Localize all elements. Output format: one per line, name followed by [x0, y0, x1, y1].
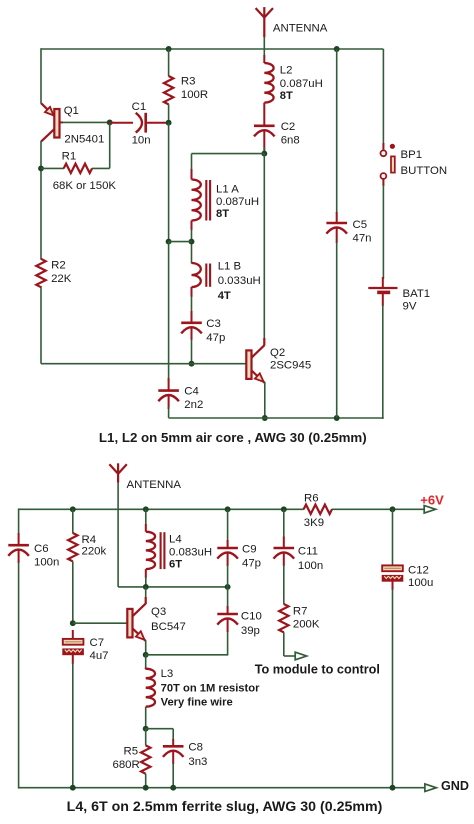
svg-text:3K9: 3K9 — [304, 517, 324, 529]
wire — [41, 363, 247, 365]
svg-text:2N5401: 2N5401 — [64, 134, 104, 146]
wire — [40, 141, 42, 260]
svg-text:6T: 6T — [169, 558, 182, 570]
svg-text:100n: 100n — [34, 556, 59, 568]
capacitor C10 — [217, 587, 238, 632]
transistor Q1 — [41, 103, 63, 141]
label 8T (L1A) — [216, 208, 229, 220]
supply arrow +6V — [424, 506, 435, 514]
label BC547 — [151, 621, 186, 633]
label ANTENNA (bottom) — [127, 479, 182, 491]
label R5 — [124, 746, 139, 758]
svg-text:22K: 22K — [51, 273, 72, 285]
svg-text:0.083uH: 0.083uH — [169, 547, 212, 559]
label 2N5401 — [64, 134, 104, 146]
wire — [168, 123, 170, 242]
wire — [263, 147, 265, 154]
node L4-bottom — [143, 584, 149, 590]
transistor Q3 — [127, 597, 145, 641]
label C4 — [184, 386, 199, 398]
label 4T (L1B) — [218, 290, 231, 302]
node rail-R4 — [70, 506, 76, 512]
wire — [392, 589, 394, 788]
node rail-R3 — [166, 46, 172, 52]
label R1 — [62, 150, 77, 162]
node C9-C10 — [225, 584, 231, 590]
svg-text:C10: C10 — [241, 610, 262, 622]
resistor R2 — [36, 259, 45, 287]
label C11 — [298, 545, 318, 557]
svg-text:C11: C11 — [298, 545, 318, 557]
label 39p — [241, 625, 260, 637]
svg-text:8T: 8T — [280, 90, 293, 102]
wire — [40, 48, 42, 104]
svg-text:BP1: BP1 — [401, 149, 423, 161]
capacitor C12 — [382, 509, 403, 590]
label To module to control — [255, 663, 380, 677]
svg-text:R3: R3 — [181, 76, 196, 88]
label R4 — [82, 534, 97, 546]
svg-text:C4: C4 — [184, 386, 199, 398]
node C3-base — [189, 361, 195, 367]
svg-text:L2: L2 — [280, 65, 293, 77]
label C2 — [281, 121, 296, 133]
wire — [40, 286, 42, 364]
wire — [18, 562, 20, 789]
resistor R4 — [68, 509, 77, 623]
capacitor C8 — [163, 739, 184, 764]
antenna ANT1 — [256, 7, 273, 37]
label L1 A — [216, 184, 239, 196]
capacitor C11 — [274, 509, 295, 566]
wire — [382, 305, 385, 419]
label 0.087uH (L2) — [280, 78, 323, 90]
label L2 — [280, 65, 293, 77]
svg-text:GND: GND — [441, 779, 469, 793]
wire — [72, 663, 74, 788]
svg-text:BUTTON: BUTTON — [401, 165, 448, 177]
node C5-rail — [334, 415, 340, 421]
resistor R1 — [41, 164, 110, 173]
resistor R3 — [164, 49, 173, 123]
svg-text:L1 A: L1 A — [216, 184, 239, 196]
wire — [62, 121, 110, 123]
node rail-C11 — [281, 506, 287, 512]
inductor L1B — [192, 263, 211, 297]
label BP1 — [401, 149, 423, 161]
wire — [145, 640, 147, 655]
capacitor C2 — [254, 126, 275, 152]
label 200K — [293, 619, 320, 631]
svg-text:47p: 47p — [242, 558, 261, 570]
label C6 — [34, 543, 49, 555]
wire — [382, 49, 384, 147]
wire — [263, 37, 265, 56]
svg-text:R2: R2 — [51, 260, 66, 272]
label 4u7 — [90, 650, 109, 662]
label 0.033uH (L1B) — [218, 275, 261, 287]
wire — [73, 622, 128, 624]
label BUTTON — [401, 165, 448, 177]
svg-text:L1 B: L1 B — [218, 261, 241, 273]
wire — [19, 787, 426, 789]
label 100R — [181, 89, 208, 101]
label C1 — [132, 101, 147, 113]
wire — [109, 122, 111, 168]
label C5 — [353, 219, 368, 231]
svg-text:C1: C1 — [132, 101, 147, 113]
svg-text:4u7: 4u7 — [90, 650, 109, 662]
label 100n — [34, 556, 59, 568]
label 68K or 150K — [53, 180, 117, 192]
label C9 — [242, 544, 257, 556]
svg-text:680R: 680R — [113, 759, 140, 771]
node Q3-emitter — [143, 652, 149, 658]
wire — [118, 586, 228, 588]
node rail-L4 — [143, 506, 149, 512]
label C12 — [408, 565, 429, 577]
svg-text:100n: 100n — [298, 560, 323, 572]
svg-text:+6V: +6V — [420, 493, 444, 508]
label 8T (L2) — [280, 90, 293, 102]
label 47n — [353, 232, 372, 244]
node Q1-base — [107, 119, 113, 125]
label R3 — [181, 76, 196, 88]
node R1-left — [38, 165, 44, 171]
svg-text:To module to control: To module to control — [255, 663, 380, 677]
wire — [145, 587, 147, 598]
svg-text:L4: L4 — [169, 534, 182, 546]
wire — [168, 242, 170, 381]
wire — [18, 508, 20, 535]
svg-text:100R: 100R — [181, 89, 208, 101]
label 100n (C11) — [298, 560, 323, 572]
svg-text:100u: 100u — [408, 577, 433, 589]
label 680R — [113, 759, 140, 771]
svg-text:0.087uH: 0.087uH — [216, 196, 259, 208]
label BAT1 — [403, 288, 431, 300]
resistor R5 — [141, 729, 150, 788]
svg-text:L4, 6T on 2.5mm ferrite slug,: L4, 6T on 2.5mm ferrite slug, AWG 30 (0.… — [67, 799, 383, 815]
label +6V — [420, 493, 444, 508]
label R2 — [51, 260, 66, 272]
label C8 — [188, 742, 203, 754]
svg-text:4T: 4T — [218, 290, 231, 302]
svg-text:R6: R6 — [304, 493, 319, 505]
label 0.083uH — [169, 547, 212, 559]
push button BP1 — [381, 143, 396, 186]
inductor L3 — [146, 655, 155, 729]
svg-text:6n8: 6n8 — [281, 134, 300, 146]
caption bottom — [67, 799, 383, 815]
svg-text:R5: R5 — [124, 746, 139, 758]
svg-text:C3: C3 — [206, 318, 221, 330]
node gnd-C12 — [390, 785, 396, 791]
inductor L1A — [192, 169, 211, 230]
node rail-C5 — [334, 46, 340, 52]
wire — [382, 185, 384, 279]
label 3K9 — [304, 517, 324, 529]
svg-text:L3: L3 — [161, 668, 174, 680]
wire — [191, 296, 193, 313]
svg-text:2SC945: 2SC945 — [270, 360, 311, 372]
label Q2 — [270, 347, 285, 359]
svg-text:C8: C8 — [188, 742, 203, 754]
wire — [191, 339, 193, 364]
svg-text:R1: R1 — [62, 150, 77, 162]
wire — [169, 417, 383, 419]
ground arrow GND — [425, 784, 436, 792]
wire — [264, 382, 266, 418]
inductor L4 — [146, 509, 165, 587]
label L4 — [169, 534, 182, 546]
antenna ANT2 — [109, 463, 126, 482]
wire — [169, 241, 192, 243]
svg-text:BC547: BC547 — [151, 621, 186, 633]
wire — [192, 153, 265, 155]
capacitor C4 — [158, 378, 179, 409]
node rail-C9 — [225, 506, 231, 512]
svg-text:L1, L2 on 5mm air core , AWG 3: L1, L2 on 5mm air core , AWG 30 (0.25mm) — [99, 430, 367, 445]
label ANTENNA (top) — [273, 23, 328, 35]
svg-text:39p: 39p — [241, 625, 260, 637]
resistor R6 — [304, 505, 332, 514]
battery BAT1 — [368, 277, 397, 306]
transistor Q2 — [246, 338, 264, 383]
wire — [146, 631, 228, 655]
node gnd-C7 — [70, 785, 76, 791]
label L1 B — [218, 261, 241, 273]
svg-text:C2: C2 — [281, 121, 296, 133]
svg-text:10n: 10n — [132, 135, 151, 147]
label 10n — [132, 135, 151, 147]
label Very fine wire — [161, 697, 233, 709]
label C7 — [90, 637, 105, 649]
wire — [41, 48, 383, 50]
label 2SC945 — [270, 360, 311, 372]
svg-text:8T: 8T — [216, 208, 229, 220]
svg-text:BAT1: BAT1 — [403, 288, 431, 300]
label L3 — [161, 668, 174, 680]
svg-text:Q1: Q1 — [64, 105, 79, 117]
wire — [263, 154, 265, 339]
svg-text:Q2: Q2 — [270, 347, 285, 359]
node C2-tank — [261, 151, 267, 157]
label 6n8 — [281, 134, 300, 146]
capacitor C5 — [326, 49, 347, 418]
svg-text:9V: 9V — [403, 301, 417, 313]
svg-text:C6: C6 — [34, 543, 49, 555]
node L1-tap — [189, 239, 195, 245]
capacitor C3 — [181, 311, 202, 340]
node rail-C12 — [390, 506, 396, 512]
node Q2-emitter-rail — [262, 415, 268, 421]
capacitor C9 — [217, 509, 238, 587]
svg-text:C5: C5 — [353, 219, 368, 231]
wire — [191, 154, 193, 171]
label 0.087uH (L1A) — [216, 196, 259, 208]
label R6 — [304, 493, 319, 505]
wire — [146, 729, 174, 741]
svg-text:68K or 150K: 68K or 150K — [53, 180, 117, 192]
svg-text:0.087uH: 0.087uH — [280, 78, 323, 90]
capacitor C1 — [110, 113, 169, 133]
node gnd-R5 — [143, 785, 149, 791]
svg-text:2n2: 2n2 — [184, 399, 203, 411]
wire — [284, 632, 296, 656]
node gnd-C8 — [170, 785, 176, 791]
label C3 — [206, 318, 221, 330]
label 100u — [408, 577, 433, 589]
wire — [172, 763, 174, 788]
label GND — [441, 779, 469, 793]
svg-text:C9: C9 — [242, 544, 257, 556]
svg-text:Very fine wire: Very fine wire — [161, 697, 233, 709]
label C10 — [241, 610, 262, 622]
label 9V — [403, 301, 417, 313]
svg-text:ANTENNA: ANTENNA — [273, 23, 328, 35]
label 2n2 — [184, 399, 203, 411]
node tap-tee — [166, 239, 172, 245]
svg-text:R7: R7 — [293, 606, 308, 618]
svg-text:200K: 200K — [293, 619, 320, 631]
capacitor C7 — [63, 630, 84, 664]
wire — [332, 508, 425, 510]
label Q1 — [64, 105, 79, 117]
node L3-bottom — [143, 726, 149, 732]
label R7 — [293, 606, 308, 618]
node R4-base — [70, 620, 76, 626]
svg-text:3n3: 3n3 — [188, 756, 207, 768]
wire — [117, 482, 119, 587]
label Q3 — [151, 606, 166, 618]
label 47p — [206, 332, 225, 344]
svg-text:C12: C12 — [408, 565, 429, 577]
label 220k — [82, 546, 107, 558]
svg-text:220k: 220k — [82, 546, 107, 558]
caption top — [99, 430, 367, 445]
wire — [191, 229, 193, 264]
svg-text:C7: C7 — [90, 637, 105, 649]
svg-text:47n: 47n — [353, 232, 372, 244]
svg-text:ANTENNA: ANTENNA — [127, 479, 182, 491]
resistor R7 — [279, 604, 288, 632]
label 22K — [51, 273, 72, 285]
svg-text:70T on 1M resistor: 70T on 1M resistor — [161, 683, 260, 695]
svg-text:R4: R4 — [82, 534, 97, 546]
svg-text:47p: 47p — [206, 332, 225, 344]
wire — [283, 565, 285, 604]
wire — [19, 508, 304, 510]
inductor L2 — [264, 55, 273, 126]
svg-text:Q3: Q3 — [151, 606, 166, 618]
label 70T on 1M resistor — [161, 683, 260, 695]
label 6T — [169, 558, 182, 570]
signal arrow to-module — [295, 652, 306, 660]
wire — [168, 407, 170, 418]
label 47p — [242, 558, 261, 570]
node R3-C1 — [166, 120, 172, 126]
capacitor C6 — [8, 533, 29, 563]
label 3n3 — [188, 756, 207, 768]
svg-text:0.033uH: 0.033uH — [218, 275, 261, 287]
